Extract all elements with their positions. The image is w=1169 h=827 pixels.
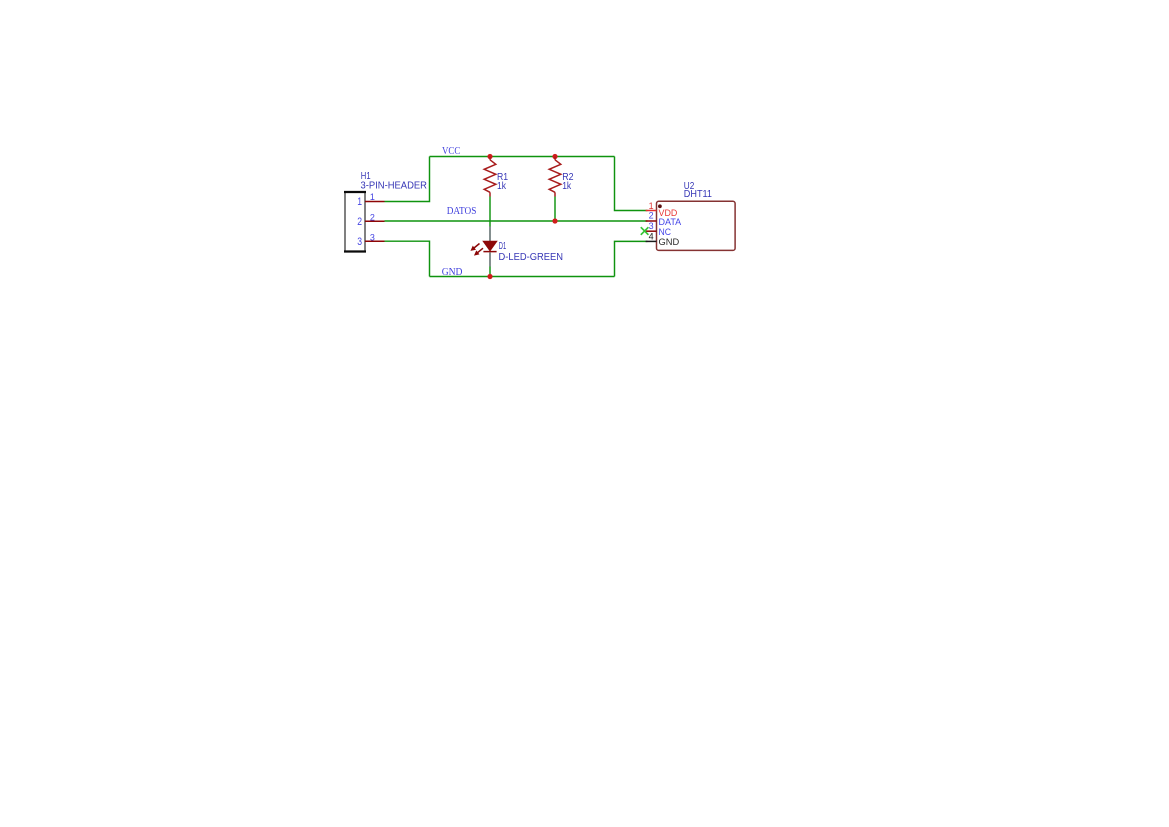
wire VCC right drop to U2 pin 1 — [615, 157, 648, 211]
wire LED cathode to GND — [489, 267, 491, 277]
svg-text:D-LED-GREEN: D-LED-GREEN — [499, 252, 564, 263]
svg-text:1: 1 — [357, 196, 362, 208]
svg-text:4: 4 — [649, 231, 654, 241]
D1 emission arrow upper — [471, 244, 479, 251]
wire GND rail — [430, 276, 615, 278]
svg-text:D1: D1 — [499, 241, 507, 252]
U2 pin 1 marker dot — [658, 204, 662, 208]
svg-text:2: 2 — [370, 212, 375, 222]
U2 pin 4 stub — [646, 240, 657, 242]
H1 pin 3 stub — [365, 240, 385, 242]
junction DATOS-R2 — [552, 218, 557, 223]
LED D1 — [471, 227, 497, 267]
connector H1 body — [344, 192, 366, 252]
svg-text:GND: GND — [659, 237, 680, 248]
svg-text:3: 3 — [370, 232, 375, 242]
H1 pin 2 stub — [365, 220, 385, 222]
svg-text:DHT11: DHT11 — [684, 189, 713, 200]
svg-text:1: 1 — [370, 192, 375, 202]
U2 pin 3 no-connect cross — [641, 227, 649, 235]
D1 anode lead — [489, 227, 491, 242]
wire GND left rise to H1 pin 3 — [385, 241, 430, 276]
junction GND-LED — [487, 274, 492, 279]
resistor R1 — [484, 157, 496, 197]
U2 pin 1 stub — [646, 210, 657, 212]
svg-text:2: 2 — [649, 211, 654, 221]
svg-text:1k: 1k — [562, 181, 572, 192]
svg-text:1k: 1k — [497, 181, 507, 192]
D1 emission arrow lower — [475, 248, 483, 255]
junction VCC-R2 — [552, 154, 557, 159]
wire DATOS rail — [385, 220, 648, 222]
wire GND right rise to U2 pin 4 — [615, 241, 648, 276]
svg-text:VCC: VCC — [442, 145, 460, 157]
wire R1 bottom to LED — [489, 197, 491, 227]
U2 pin 2 stub — [646, 220, 657, 222]
svg-text:3-PIN-HEADER: 3-PIN-HEADER — [361, 180, 428, 191]
U2 pin 3 stub — [646, 230, 657, 232]
D1 triangle — [483, 241, 497, 251]
resistor R2 — [549, 157, 561, 197]
junction VCC-R1 — [487, 154, 492, 159]
svg-text:3: 3 — [357, 236, 362, 248]
svg-text:1: 1 — [649, 201, 654, 211]
H1 pin 1 stub — [365, 201, 385, 203]
svg-text:2: 2 — [357, 216, 362, 228]
svg-text:DATOS: DATOS — [447, 205, 477, 217]
svg-text:3: 3 — [649, 221, 654, 231]
D1 cathode bar — [483, 251, 496, 253]
wire VCC rail — [430, 156, 615, 158]
wire R2 bottom to DATOS — [554, 197, 556, 222]
wire VCC left drop to H1 pin 1 — [385, 157, 430, 202]
D1 cathode lead — [489, 252, 491, 266]
IC U2 body — [657, 201, 736, 250]
svg-text:GND: GND — [442, 266, 463, 278]
